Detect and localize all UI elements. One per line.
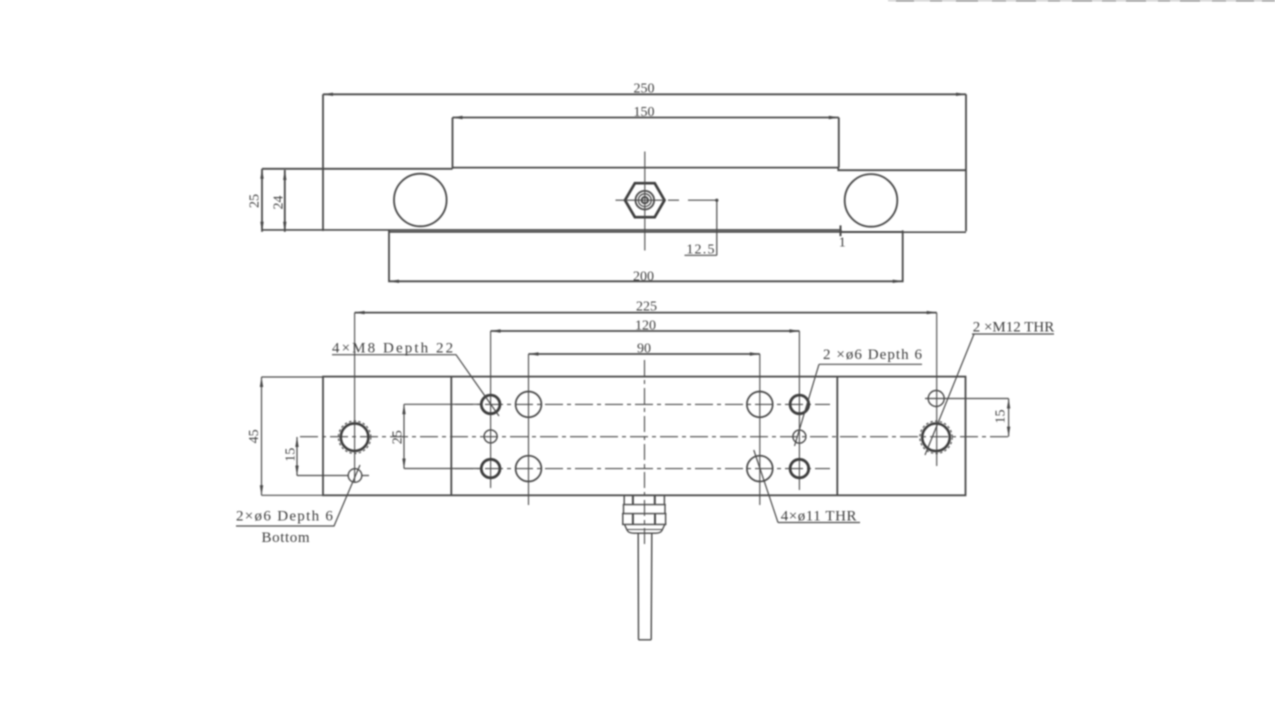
svg-text:25: 25	[248, 194, 263, 208]
svg-text:200: 200	[633, 270, 654, 285]
svg-text:15: 15	[993, 410, 1008, 424]
svg-text:24: 24	[272, 196, 287, 210]
svg-text:2 ×M12 THR: 2 ×M12 THR	[973, 320, 1055, 336]
svg-text:45: 45	[247, 429, 262, 443]
svg-text:4×M8 Depth 22: 4×M8 Depth 22	[332, 340, 455, 356]
svg-text:250: 250	[634, 81, 655, 96]
svg-text:25: 25	[390, 430, 405, 444]
svg-text:1: 1	[839, 236, 846, 251]
svg-text:2×ø6 Depth 6: 2×ø6 Depth 6	[236, 509, 334, 525]
svg-text:12.5: 12.5	[686, 242, 715, 257]
svg-text:150: 150	[634, 105, 655, 120]
svg-text:15: 15	[284, 448, 299, 462]
svg-text:225: 225	[636, 300, 657, 315]
svg-text:Bottom: Bottom	[262, 530, 311, 546]
svg-text:4×ø11 THR: 4×ø11 THR	[781, 509, 857, 525]
svg-text:120: 120	[635, 319, 656, 334]
svg-text:90: 90	[637, 342, 651, 357]
svg-text:2 ×ø6 Depth 6: 2 ×ø6 Depth 6	[823, 347, 923, 363]
